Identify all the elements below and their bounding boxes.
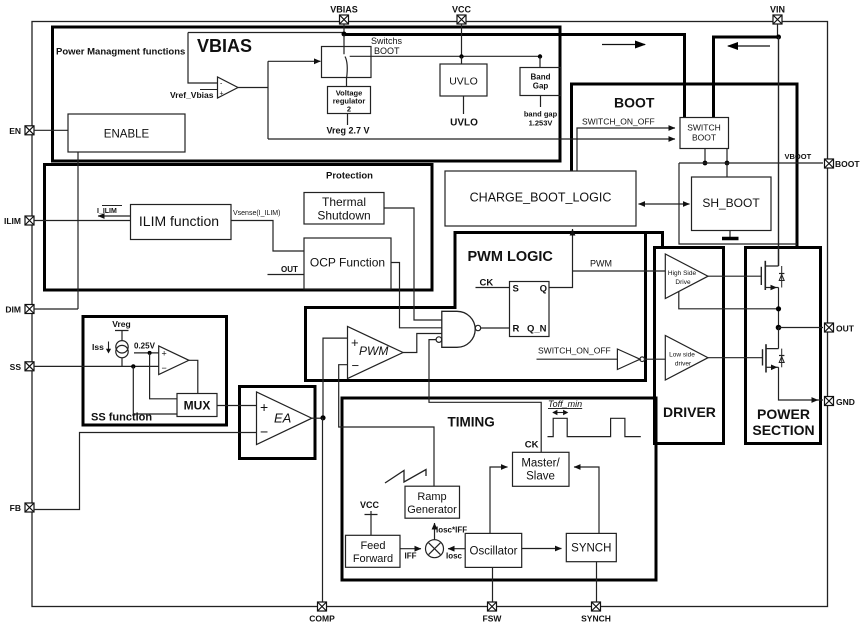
svg-text:Master/: Master/ — [521, 458, 560, 470]
svg-text:Low side: Low side — [669, 352, 695, 359]
block Protection (thick box) — [45, 165, 433, 291]
svg-text:VBIAS: VBIAS — [330, 5, 358, 15]
svg-text:SWITCH_ON_OFF: SWITCH_ON_OFF — [582, 117, 655, 127]
svg-text:SS function: SS function — [91, 412, 152, 424]
block ILIM function — [131, 205, 232, 240]
svg-text:Drive: Drive — [675, 279, 691, 286]
wire IFF to multiplier — [400, 548, 421, 550]
wire CHARGE_BOOT_LOGIC to SH_BOOT double arrow — [639, 203, 664, 205]
wire VBIAS feedback to buffer — [188, 33, 218, 84]
wire Oscillator to SYNCH — [522, 548, 562, 550]
block SS function (thick box) — [83, 317, 227, 426]
svg-text:BOOT: BOOT — [614, 95, 655, 111]
wire inverter to Low side driver — [645, 358, 666, 360]
pin VBIAS — [340, 15, 349, 24]
ground SH_BOOT — [729, 231, 731, 238]
wire PWM comparator output to NAND — [403, 334, 442, 353]
wire SWITCH_ON_OFF boot elbow — [577, 128, 675, 171]
block ENABLE — [68, 114, 185, 152]
svg-text:Thermal: Thermal — [322, 195, 366, 209]
svg-text:VBOOT: VBOOT — [785, 152, 812, 161]
svg-text:DRIVER: DRIVER — [663, 404, 716, 420]
block TIMING (thick box) — [342, 398, 656, 580]
svg-text:DIM: DIM — [5, 305, 21, 315]
svg-text:UVLO: UVLO — [449, 76, 478, 88]
sawtooth symbol — [385, 470, 426, 484]
svg-text:TIMING: TIMING — [448, 415, 495, 430]
wire SWITCH BOOT outputs down — [705, 149, 727, 164]
wire arrow into switch box — [268, 60, 321, 62]
wire OCP to NAND — [391, 263, 442, 328]
svg-text:FB: FB — [10, 503, 21, 513]
svg-text:Vsense(I_ILIM): Vsense(I_ILIM) — [233, 210, 280, 217]
wire MUX to EA plus — [217, 405, 257, 407]
SH_BOOT enclosure — [679, 163, 797, 244]
block PWM LOGIC (thick outline with comparator notch) — [306, 233, 646, 381]
pin BOOT — [825, 159, 834, 168]
wire VBIAS top rail — [188, 32, 344, 34]
svg-text:Iosc*IFF: Iosc*IFF — [436, 526, 467, 535]
svg-text:1.253V: 1.253V — [529, 119, 553, 128]
svg-text:Ramp: Ramp — [417, 491, 446, 503]
wire LS driver to gate — [708, 357, 763, 359]
wire VIN pin down — [777, 24, 779, 37]
diode D1 body — [781, 266, 783, 288]
wire EA output — [312, 417, 323, 419]
wire 0.25V down to MUX — [150, 353, 177, 399]
arrow annotation left — [728, 45, 770, 47]
block Ramp Generator — [405, 486, 460, 518]
svg-text:SYNCH: SYNCH — [571, 543, 611, 555]
pin SYNCH — [592, 602, 601, 611]
wire CK net to NAND inverted input — [429, 340, 541, 453]
wire SS pin to comparator minus — [34, 365, 159, 367]
block SYNCH — [566, 533, 616, 561]
wire band gap output — [540, 96, 542, 108]
wire VCC to UVLO — [461, 57, 463, 65]
NAND gate U1 — [442, 311, 475, 347]
svg-text:Switchs: Switchs — [371, 36, 403, 46]
svg-text:VIN: VIN — [770, 5, 785, 15]
block SH_BOOT — [692, 177, 772, 231]
svg-text:Slave: Slave — [526, 471, 555, 483]
block DRIVER (thick box) — [655, 248, 724, 444]
buffer inverter SWITCH_ON_OFF — [617, 349, 640, 370]
current source Iss — [116, 341, 128, 353]
svg-text:Iss: Iss — [92, 342, 104, 352]
svg-text:EN: EN — [9, 126, 21, 136]
wire EN pin to ENABLE — [34, 129, 68, 131]
svg-text:PWM: PWM — [359, 344, 388, 358]
driver Low side driver — [665, 336, 708, 381]
pin FB — [25, 503, 34, 512]
pin EN — [25, 126, 34, 135]
svg-text:Vreg 2.7 V: Vreg 2.7 V — [326, 126, 369, 136]
svg-text:UVLO: UVLO — [450, 118, 478, 129]
wire SYNCH to SYNCH pin — [596, 562, 598, 602]
svg-text:ENABLE: ENABLE — [104, 129, 150, 141]
block Thermal Shutdown — [304, 193, 384, 225]
diode D2 body — [781, 349, 783, 368]
svg-text:−: − — [352, 358, 360, 373]
svg-text:COMP: COMP — [309, 614, 335, 624]
wire thick VIN to SWITCH BOOT — [714, 37, 779, 117]
pin FSW — [488, 602, 497, 611]
wire HS source to switch node — [778, 288, 780, 328]
svg-text:−: − — [162, 363, 167, 373]
transistor Q1 high side — [760, 267, 762, 285]
svg-text:CK: CK — [525, 440, 539, 451]
svg-text:0.25V: 0.25V — [134, 342, 156, 351]
svg-text:Power Managment functions: Power Managment functions — [56, 47, 185, 58]
wire VCC pin down — [461, 24, 463, 57]
block POWER SECTION (thick box) — [746, 248, 821, 444]
node SS junction — [131, 364, 135, 368]
wire EA output up to PWM comparator plus — [323, 338, 348, 417]
wire VCC to Feed Forward — [365, 511, 378, 535]
pin OUT — [825, 323, 834, 332]
svg-text:VBIAS: VBIAS — [197, 36, 252, 56]
node switch node — [776, 306, 781, 311]
block SWITCH BOOT — [680, 118, 729, 149]
svg-text:OUT: OUT — [836, 324, 855, 334]
svg-text:SS: SS — [10, 362, 22, 372]
svg-text:ILIM: ILIM — [4, 216, 21, 226]
op-amp EA — [257, 392, 312, 445]
svg-text:CK: CK — [480, 278, 494, 289]
svg-text:SWITCH_ON_OFF: SWITCH_ON_OFF — [538, 346, 611, 356]
wire I_ILIM arrow — [98, 215, 131, 217]
svg-text:CHARGE_BOOT_LOGIC: CHARGE_BOOT_LOGIC — [470, 191, 612, 205]
wire buffer output to SWITCH BOOT — [268, 138, 675, 140]
svg-text:S: S — [513, 284, 519, 295]
node band gap junction — [538, 54, 542, 58]
wire buffer output node — [238, 61, 268, 139]
wire VBOOT rail to BOOT pin — [679, 162, 823, 164]
svg-text:SYNCH: SYNCH — [581, 614, 611, 624]
svg-text:FSW: FSW — [483, 614, 503, 624]
block Band Gap — [520, 68, 561, 96]
wire OUT to pin — [779, 327, 824, 329]
svg-text:ILIM function: ILIM function — [139, 213, 219, 229]
wire comparator to MUX top — [189, 360, 198, 393]
pin SS — [25, 362, 34, 371]
block Power Managment functions (thick box) — [53, 27, 561, 161]
node VBIAS junction — [342, 32, 347, 37]
svg-text:Feed: Feed — [360, 540, 385, 552]
arrow annotation right — [602, 44, 645, 46]
block EA (thick box) — [240, 387, 316, 459]
svg-text:Protection: Protection — [326, 171, 373, 182]
wire PWM to High Side Drive — [573, 270, 666, 272]
block CHARGE_BOOT_LOGIC — [445, 171, 636, 226]
svg-text:Q: Q — [540, 284, 547, 295]
wire OUT stub — [268, 274, 305, 276]
pin COMP — [318, 602, 327, 611]
svg-text:Forward: Forward — [353, 553, 393, 565]
wire VBOOT to SH_BOOT — [726, 163, 728, 177]
wire SWITCH_ON_OFF to buffer — [537, 358, 618, 360]
wire switch box to voltage regulator — [346, 78, 348, 87]
pin ILIM — [25, 216, 34, 225]
wire multiplier up to Ramp Generator — [434, 523, 436, 540]
wire LS source to GND pin — [779, 367, 819, 400]
pin GND — [825, 397, 834, 406]
wire Oscillator to Master/Slave — [490, 467, 508, 533]
pin VIN — [773, 15, 782, 24]
svg-text:Iosc: Iosc — [446, 552, 463, 561]
wire SS down to MUX — [133, 366, 177, 414]
op-amp PWM comparator — [348, 327, 404, 379]
node VCC junction — [459, 54, 463, 58]
svg-text:Vref_Vbias: Vref_Vbias — [170, 90, 214, 100]
block BOOT (thick outline) — [572, 84, 798, 246]
supply tick Vreg — [115, 331, 129, 341]
svg-text:Q_N: Q_N — [527, 324, 547, 335]
svg-text:band gap: band gap — [524, 110, 558, 119]
block Oscillator — [465, 533, 522, 567]
node VBOOT junctions — [703, 161, 708, 166]
svg-text:-: - — [220, 81, 223, 88]
block Feed Forward — [346, 535, 401, 567]
svg-text:OCP Function: OCP Function — [310, 256, 385, 270]
wire EA output down to COMP pin — [322, 418, 324, 602]
block Master/Slave — [513, 452, 570, 486]
block Voltage regulator 2 — [328, 87, 371, 114]
wire Q up to CHARGE_BOOT_LOGIC with arrow — [549, 229, 573, 288]
wire CK to S — [476, 287, 510, 289]
svg-text:Shutdown: Shutdown — [317, 209, 370, 223]
driver High Side Drive — [665, 254, 708, 299]
svg-text:I_ILIM: I_ILIM — [97, 208, 117, 215]
wire NAND output to R — [481, 327, 510, 329]
svg-text:SECTION: SECTION — [752, 422, 814, 438]
svg-text:BOOT: BOOT — [374, 46, 400, 56]
svg-text:VCC: VCC — [360, 500, 380, 510]
svg-text:Toff_min: Toff_min — [548, 399, 582, 409]
wire FB pin to EA minus — [34, 433, 257, 510]
wire Vsense to OCP — [231, 221, 304, 252]
svg-text:IFF: IFF — [405, 552, 417, 561]
pin DIM — [25, 305, 34, 314]
arrow double Toff_min — [553, 412, 568, 414]
wire voltage regulator output — [347, 114, 349, 126]
wire Iosc to multiplier — [448, 548, 465, 550]
svg-text:driver: driver — [675, 361, 692, 368]
svg-text:SH_BOOT: SH_BOOT — [702, 196, 760, 210]
svg-text:+: + — [351, 335, 359, 350]
svg-text:OUT: OUT — [281, 265, 298, 274]
svg-text:Vreg: Vreg — [112, 319, 130, 329]
wire HS drive return to switch node — [679, 292, 779, 309]
transistor Q2 low side — [766, 328, 779, 349]
block MUX — [177, 394, 217, 417]
svg-text:EA: EA — [274, 411, 291, 426]
svg-text:MUX: MUX — [184, 399, 211, 413]
wire VIN down to power section — [778, 37, 780, 266]
wire Thermal Shutdown to NAND — [384, 208, 442, 320]
wire Oscillator to FSW pin — [492, 567, 494, 602]
svg-text:BOOT: BOOT — [835, 159, 860, 169]
svg-text:PWM LOGIC: PWM LOGIC — [468, 249, 554, 265]
switch blade — [344, 35, 347, 79]
svg-text:PWM: PWM — [590, 259, 612, 269]
svg-text:Band: Band — [531, 73, 551, 82]
svg-text:High Side: High Side — [668, 270, 697, 277]
wire ramp to PWM comparator minus — [339, 365, 434, 486]
wire VBIAS pin down to node — [343, 24, 345, 33]
svg-text:2: 2 — [347, 105, 351, 114]
node 0.25V junction — [148, 351, 152, 355]
svg-text:VCC: VCC — [452, 5, 472, 15]
wire ILIM pin to ILIM function — [34, 220, 131, 222]
switch box — [322, 47, 372, 78]
pin VCC — [457, 15, 466, 24]
svg-text:+: + — [162, 349, 167, 359]
block UVLO — [440, 64, 487, 96]
svg-text:+: + — [220, 91, 224, 98]
multiplier X — [426, 540, 444, 558]
wire UVLO output — [463, 96, 465, 114]
op-amp buffer Vref_Vbias — [218, 77, 239, 98]
svg-text:BOOT: BOOT — [692, 133, 716, 143]
wire 0.25V to comparator plus — [134, 352, 159, 354]
svg-text:Generator: Generator — [407, 504, 457, 516]
svg-text:+: + — [260, 399, 268, 415]
svg-text:Gap: Gap — [533, 82, 549, 91]
wire thick Switchs BOOT rail to SWITCH BOOT — [344, 35, 685, 118]
wire switch to VCC rail — [350, 55, 540, 57]
svg-text:GND: GND — [836, 397, 855, 407]
svg-text:Oscillator: Oscillator — [470, 546, 518, 558]
op-amp SS comparator — [159, 346, 189, 375]
block OCP Function — [304, 238, 391, 289]
wire SYNCH to Master/Slave — [574, 467, 599, 533]
flip-flop SR latch — [510, 282, 550, 337]
NAND inverted input bubble — [436, 337, 442, 343]
wire rail to Band Gap — [539, 57, 541, 68]
waveform Toff pulses — [548, 418, 641, 436]
node VIN junction — [776, 35, 781, 40]
wire ENABLE down to DIM — [34, 152, 78, 309]
svg-text:POWER: POWER — [757, 406, 810, 422]
svg-text:SWITCH: SWITCH — [687, 123, 721, 133]
node EA output — [320, 415, 325, 420]
wire HS drive to gate — [708, 275, 761, 277]
svg-text:R: R — [513, 324, 520, 335]
svg-text:−: − — [260, 424, 268, 440]
